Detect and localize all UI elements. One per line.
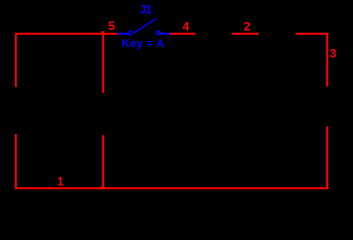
- svg-text:Key = A: Key = A: [122, 38, 165, 50]
- svg-text:J1: J1: [139, 2, 152, 16]
- svg-text:5: 5: [108, 19, 115, 33]
- svg-text:2: 2: [244, 19, 251, 33]
- svg-text:4: 4: [183, 19, 190, 33]
- svg-text:1: 1: [57, 175, 64, 189]
- svg-text:3: 3: [330, 47, 337, 61]
